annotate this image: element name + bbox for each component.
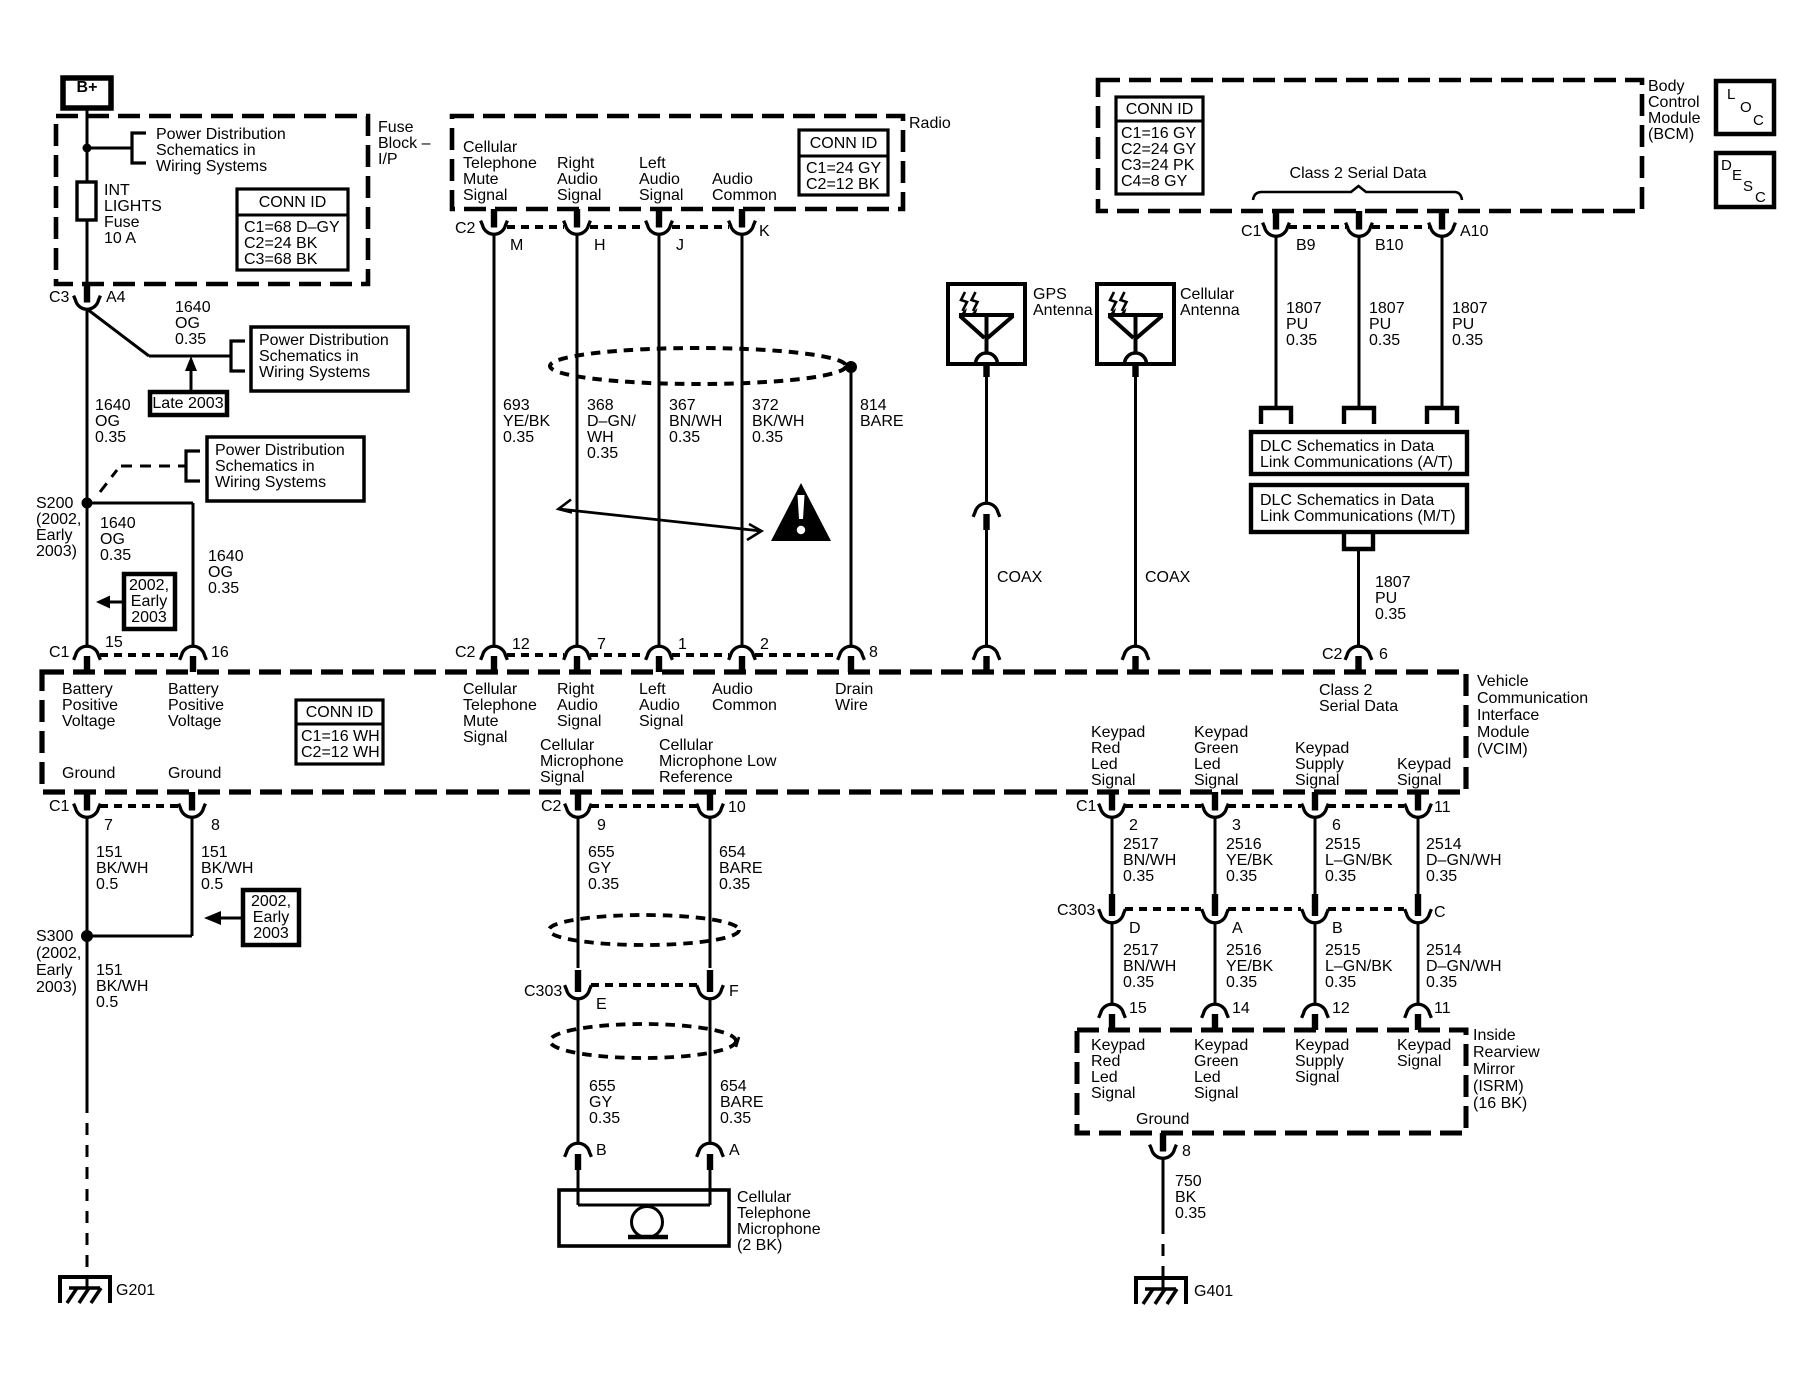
svg-text:Inside: Inside [1473, 1027, 1516, 1044]
svg-text:YE/BK: YE/BK [1226, 958, 1273, 975]
wire S200 down [86, 503, 89, 646]
wire S200 branch right [87, 503, 193, 646]
svg-text:A4: A4 [106, 289, 126, 306]
svg-text:Cellular: Cellular [540, 737, 595, 754]
svg-text:(2 BK): (2 BK) [737, 1237, 782, 1254]
svg-text:0.35: 0.35 [1226, 868, 1257, 885]
wire label 1807 PU 0.35 d [1375, 574, 1411, 623]
svg-text:0.35: 0.35 [1426, 974, 1457, 991]
label pin 1 [678, 636, 687, 653]
label COAX gps [997, 569, 1043, 586]
svg-text:Ground: Ground [62, 765, 115, 782]
wire label 367 BN/WH 0.35 [669, 397, 722, 446]
label Class 2 Serial Data (BCM) [1290, 165, 1427, 182]
svg-text:Mute: Mute [463, 713, 499, 730]
svg-text:C1: C1 [49, 644, 70, 661]
coax wire GPS lower [985, 530, 988, 646]
drain wire junction node [845, 361, 857, 373]
label Cellular Telephone Microphone (2 BK) [737, 1189, 821, 1254]
CONN ID table BCM [1116, 97, 1203, 194]
connector VCIM C1 pin 6 [1302, 792, 1329, 817]
svg-text:BK/WH: BK/WH [752, 413, 804, 430]
svg-text:0.35: 0.35 [720, 1110, 751, 1127]
svg-text:Common: Common [712, 187, 777, 204]
svg-text:OG: OG [100, 531, 125, 548]
wire label 1640 OG 0.35 right [208, 548, 244, 597]
svg-text:Telephone: Telephone [463, 155, 537, 172]
LOC box [1716, 81, 1774, 134]
wire label 750 BK 0.35 [1175, 1173, 1206, 1222]
svg-text:Voltage: Voltage [168, 713, 221, 730]
dashed connector row BCM [1289, 225, 1429, 229]
cellular telephone microphone box [559, 1190, 729, 1246]
label pin 9 [597, 817, 606, 834]
svg-text:PU: PU [1375, 590, 1397, 607]
svg-text:2003): 2003) [36, 543, 77, 560]
label G201 [116, 1282, 155, 1299]
svg-text:A: A [1232, 920, 1243, 937]
svg-text:Battery: Battery [62, 681, 113, 698]
svg-text:C1: C1 [1076, 798, 1097, 815]
label C303 mic [524, 983, 562, 1000]
svg-text:15: 15 [105, 634, 123, 651]
svg-text:Telephone: Telephone [737, 1205, 811, 1222]
svg-text:F: F [729, 983, 739, 1000]
svg-text:(BCM): (BCM) [1648, 126, 1694, 143]
svg-text:1640: 1640 [100, 515, 136, 532]
wire 2514 upper [1417, 817, 1420, 894]
svg-text:1640: 1640 [175, 299, 211, 316]
svg-text:Module: Module [1648, 110, 1701, 127]
label pin C keypad [1434, 904, 1446, 921]
svg-text:D: D [1129, 920, 1141, 937]
label Body Control Module (BCM) [1648, 78, 1701, 143]
svg-text:GY: GY [588, 860, 611, 877]
svg-text:D–GN/WH: D–GN/WH [1426, 852, 1502, 869]
label Power Distribution Schematics in Wiring Systems 1 [156, 126, 286, 175]
svg-text:2517: 2517 [1123, 836, 1159, 853]
label C3 [49, 289, 70, 306]
label pin 15 [105, 634, 123, 651]
svg-text:2003): 2003) [36, 979, 77, 996]
svg-text:Positive: Positive [168, 697, 224, 714]
svg-text:0.35: 0.35 [587, 445, 618, 462]
svg-text:0.35: 0.35 [175, 331, 206, 348]
wire label 693 YE/BK 0.35 [503, 397, 550, 446]
coax wire cellular [1134, 377, 1137, 646]
label Inside Rearview Mirror (ISRM) (16 BK) [1473, 1027, 1540, 1112]
svg-text:7: 7 [104, 817, 113, 834]
label GPS Antenna [1033, 286, 1093, 319]
svg-text:2517: 2517 [1123, 942, 1159, 959]
svg-text:A10: A10 [1460, 223, 1489, 240]
connector BCM B9 [1346, 211, 1373, 236]
svg-text:M: M [510, 237, 523, 254]
svg-text:Link Communications (M/T): Link Communications (M/T) [1260, 508, 1456, 525]
connector radio C2 pin M [481, 209, 508, 234]
connector C1 pin 15 entry [74, 646, 101, 672]
svg-text:BK/WH: BK/WH [96, 860, 148, 877]
label S300 (2002, Early 2003) [36, 928, 81, 996]
svg-text:11: 11 [1434, 799, 1451, 816]
svg-text:Led: Led [1194, 756, 1221, 773]
svg-text:1807: 1807 [1286, 300, 1322, 317]
wire label 654 BARE 0.35 lower [720, 1078, 764, 1127]
wire label 368 D-GN/WH 0.35 [587, 397, 636, 462]
svg-text:B10: B10 [1375, 237, 1404, 254]
label pin 16 [211, 644, 229, 661]
connector VCIM cellular coax entry [1122, 646, 1149, 672]
svg-text:0.35: 0.35 [588, 876, 619, 893]
svg-text:C2=12 BK: C2=12 BK [806, 176, 880, 193]
svg-text:Right: Right [557, 155, 595, 172]
dashed connector row C303 keypad [1125, 907, 1404, 911]
svg-text:C2=24 BK: C2=24 BK [244, 235, 318, 252]
connector BCM C1 serial [1263, 211, 1290, 236]
svg-text:Signal: Signal [1397, 1053, 1441, 1070]
connector ISRM pin 12 [1302, 1004, 1329, 1030]
svg-text:Keypad: Keypad [1397, 1037, 1451, 1054]
svg-text:Signal: Signal [639, 713, 683, 730]
connector VCIM C2 pin 8 drain [838, 646, 865, 672]
wire label 655 GY 0.35 lower [589, 1078, 620, 1127]
svg-text:0.35: 0.35 [208, 580, 239, 597]
svg-text:O: O [1740, 99, 1752, 116]
svg-text:L–GN/BK: L–GN/BK [1325, 852, 1393, 869]
svg-text:1640: 1640 [95, 397, 131, 414]
coax wire GPS upper [985, 377, 988, 504]
svg-text:Wire: Wire [835, 697, 868, 714]
svg-text:BN/WH: BN/WH [669, 413, 722, 430]
connector C303 pin F [697, 970, 724, 999]
label A4 [106, 289, 126, 306]
wire 1807 PU from B10 [1441, 236, 1444, 408]
svg-text:C1=16 GY: C1=16 GY [1121, 125, 1196, 142]
svg-text:OG: OG [175, 315, 200, 332]
svg-text:Fuse: Fuse [104, 214, 140, 231]
wire 1807 PU to VCIM [1357, 549, 1360, 646]
connector VCIM C2 pin 10 [697, 792, 724, 817]
svg-text:B+: B+ [77, 79, 98, 96]
svg-text:Microphone Low: Microphone Low [659, 753, 777, 770]
wire junction to bracket [87, 147, 132, 150]
svg-text:1640: 1640 [208, 548, 244, 565]
label pin M [510, 237, 523, 254]
splice S300 [81, 930, 93, 942]
svg-text:Common: Common [712, 697, 777, 714]
svg-text:Keypad: Keypad [1194, 1037, 1248, 1054]
dashed connector row mic [591, 804, 697, 808]
svg-text:0.5: 0.5 [96, 994, 118, 1011]
svg-text:Early: Early [131, 593, 167, 610]
label pin 15 ISRM [1129, 1000, 1147, 1017]
svg-text:Supply: Supply [1295, 1053, 1344, 1070]
svg-text:Signal: Signal [1091, 1085, 1135, 1102]
svg-text:Left: Left [639, 155, 666, 172]
svg-text:INT: INT [104, 182, 130, 199]
svg-text:693: 693 [503, 397, 530, 414]
svg-text:Audio: Audio [557, 697, 598, 714]
label Fuse Block - I/P [378, 119, 431, 168]
label pin 10 [728, 799, 746, 816]
B+ battery positive terminal [63, 78, 111, 108]
wire S300 to ground solid [86, 936, 89, 1101]
caution pointer line [559, 500, 762, 541]
wire label 1807 PU 0.35 a [1286, 300, 1322, 349]
wire 750 BK dashed [1162, 1222, 1165, 1278]
svg-text:C2: C2 [541, 798, 562, 815]
svg-text:DLC Schematics in Data: DLC Schematics in Data [1260, 492, 1434, 509]
svg-text:Keypad: Keypad [1091, 1037, 1145, 1054]
label Keypad Supply Signal (ISRM) [1295, 1037, 1349, 1086]
svg-text:Rearview: Rearview [1473, 1044, 1540, 1061]
svg-text:2515: 2515 [1325, 942, 1361, 959]
svg-text:(VCIM): (VCIM) [1477, 741, 1528, 758]
label pin J [676, 237, 684, 254]
label Keypad Red Led Signal (ISRM) [1091, 1037, 1145, 1102]
connector C303 pin E [565, 970, 592, 999]
label Right Audio Signal (radio) [557, 155, 601, 204]
svg-text:0.35: 0.35 [1325, 974, 1356, 991]
label INT LIGHTS Fuse 10 A [104, 182, 162, 247]
ground G401 [1136, 1278, 1186, 1304]
wire label 2515 L-GN/BK upper [1325, 836, 1393, 885]
shield ellipse radio harness [550, 348, 846, 384]
svg-text:H: H [594, 237, 606, 254]
wire label 1807 PU 0.35 b [1369, 300, 1405, 349]
dashed connector row C1 left [100, 653, 180, 657]
label C2 radio [455, 220, 476, 237]
svg-text:Wiring Systems: Wiring Systems [156, 158, 267, 175]
svg-text:Early: Early [36, 962, 72, 979]
connector mic pin B [565, 1143, 592, 1170]
svg-text:Red: Red [1091, 740, 1120, 757]
label B9 [1296, 237, 1316, 254]
label C2 mic [541, 798, 562, 815]
svg-text:2003: 2003 [131, 609, 167, 626]
svg-text:J: J [676, 237, 684, 254]
label Keypad Red Led Signal (VCIM) [1091, 724, 1145, 789]
svg-text:Signal: Signal [1295, 772, 1339, 789]
svg-text:Communication: Communication [1477, 690, 1588, 707]
connector radio C2 pin K [729, 209, 756, 234]
svg-text:Signal: Signal [1295, 1069, 1339, 1086]
svg-text:2514: 2514 [1426, 942, 1462, 959]
label C1 BCM [1241, 223, 1262, 240]
wire C3 down to S200 [86, 309, 89, 503]
label Right Audio Signal (VCIM) [557, 681, 601, 730]
connector C3 pin A4 [74, 284, 101, 309]
svg-text:BK/WH: BK/WH [201, 860, 253, 877]
connector C1 pin 16 entry [180, 646, 207, 672]
wire 2515 upper [1314, 817, 1317, 894]
svg-text:S200: S200 [36, 495, 73, 512]
svg-text:367: 367 [669, 397, 696, 414]
wire label 1640 OG 0.35 branch [175, 299, 211, 348]
svg-text:655: 655 [588, 844, 615, 861]
connector VCIM C1 pin 8 ground [179, 792, 206, 817]
connector C303 pin C keypad [1405, 894, 1432, 923]
svg-text:Signal: Signal [557, 187, 601, 204]
wire 750 BK solid [1162, 1158, 1165, 1222]
CONN ID table fuse block [237, 189, 348, 270]
svg-text:Audio: Audio [639, 171, 680, 188]
svg-text:Mute: Mute [463, 171, 499, 188]
svg-text:CONN ID: CONN ID [306, 704, 374, 721]
label C303 keypad [1057, 902, 1095, 919]
dashed connector row keypad C1 [1125, 804, 1404, 808]
svg-text:Keypad: Keypad [1194, 724, 1248, 741]
svg-text:Schematics in: Schematics in [215, 458, 315, 475]
wire 151 BK/WH pin8 [87, 817, 192, 936]
svg-text:Left: Left [639, 681, 666, 698]
svg-text:Audio: Audio [712, 681, 753, 698]
wire into mic left [577, 1170, 580, 1205]
svg-text:C3=68 BK: C3=68 BK [244, 251, 318, 268]
svg-text:Cellular: Cellular [737, 1189, 792, 1206]
label A10 [1460, 223, 1489, 240]
svg-text:Cellular: Cellular [659, 737, 714, 754]
connector VCIM C1 pin 11 [1405, 792, 1432, 817]
svg-text:S: S [1743, 178, 1753, 195]
connector VCIM C2 pin 1 [646, 646, 673, 672]
svg-text:12: 12 [512, 636, 530, 653]
label C2 VCIM audio [455, 644, 476, 661]
svg-text:C4=8 GY: C4=8 GY [1121, 173, 1188, 190]
svg-text:Module: Module [1477, 724, 1530, 741]
svg-text:C303: C303 [1057, 902, 1095, 919]
svg-text:C1=24 GY: C1=24 GY [806, 160, 881, 177]
label pin 11 top [1434, 799, 1451, 816]
svg-text:3: 3 [1232, 817, 1241, 834]
connector ISRM pin 8 ground [1150, 1133, 1177, 1158]
svg-text:Fuse: Fuse [378, 119, 414, 136]
svg-text:0.5: 0.5 [201, 876, 223, 893]
svg-text:I/P: I/P [378, 151, 398, 168]
svg-text:0.35: 0.35 [1426, 868, 1457, 885]
svg-text:OG: OG [95, 413, 120, 430]
label B10 [1375, 237, 1404, 254]
svg-text:372: 372 [752, 397, 779, 414]
wire label 2517 BN/WH upper [1123, 836, 1176, 885]
svg-text:151: 151 [96, 962, 123, 979]
svg-text:Control: Control [1648, 94, 1700, 111]
wire 2515 lower [1314, 922, 1317, 1003]
svg-text:Signal: Signal [1091, 772, 1135, 789]
wire fuse to connector C3 [86, 220, 89, 284]
svg-text:C2: C2 [1322, 646, 1343, 663]
connector VCIM C2 pin 2 [729, 646, 756, 672]
wire branch diagonal late-2003 [87, 309, 231, 356]
svg-text:0.35: 0.35 [1452, 332, 1483, 349]
wire label 151 BK/WH 0.5 c [96, 962, 148, 1011]
svg-text:8: 8 [211, 817, 220, 834]
twisted pair ellipse lower [550, 1024, 739, 1058]
svg-text:YE/BK: YE/BK [503, 413, 550, 430]
svg-text:B9: B9 [1296, 237, 1316, 254]
connector C303 pin A keypad [1202, 894, 1229, 923]
connector C303 pin D [1099, 894, 1126, 923]
svg-text:Wiring Systems: Wiring Systems [259, 364, 370, 381]
label pin 8 [869, 644, 878, 661]
svg-text:10 A: 10 A [104, 230, 136, 247]
svg-text:C303: C303 [524, 983, 562, 1000]
connector VCIM gps coax entry [973, 646, 1000, 672]
wire 151 BK/WH pin7 [86, 817, 89, 936]
label G401 [1194, 1283, 1233, 1300]
svg-text:7: 7 [597, 636, 606, 653]
label Radio [909, 115, 951, 132]
svg-text:11: 11 [1434, 1000, 1451, 1017]
label Audio Common (VCIM) [712, 681, 777, 714]
svg-text:Signal: Signal [1194, 772, 1238, 789]
svg-text:Led: Led [1091, 756, 1118, 773]
label Battery Positive Voltage 1 [62, 681, 118, 730]
svg-text:C2: C2 [455, 220, 476, 237]
label pin 2 [1129, 817, 1138, 834]
label Keypad Signal (ISRM) [1397, 1037, 1451, 1070]
wire S300 to ground dashed [86, 1101, 89, 1277]
junction node in fuse block [83, 144, 92, 153]
wire 2516 upper [1214, 817, 1217, 894]
label pin 8 ISRM [1182, 1143, 1191, 1160]
svg-text:C1: C1 [49, 798, 70, 815]
svg-text:PU: PU [1452, 316, 1474, 333]
brace Class 2 Serial Data [1253, 186, 1462, 200]
wire 1807 PU from B9 [1358, 236, 1361, 408]
svg-text:Schematics in: Schematics in [156, 142, 256, 159]
svg-text:C1: C1 [1241, 223, 1262, 240]
svg-text:Led: Led [1194, 1069, 1221, 1086]
wire label 372 BK/WH 0.35 [752, 397, 804, 446]
label pin 3 [1232, 817, 1241, 834]
svg-text:Wiring Systems: Wiring Systems [215, 474, 326, 491]
svg-text:Telephone: Telephone [463, 697, 537, 714]
svg-text:2: 2 [1129, 817, 1138, 834]
svg-text:D: D [1721, 157, 1732, 174]
svg-text:2003: 2003 [253, 925, 289, 942]
svg-text:Signal: Signal [463, 729, 507, 746]
label Audio Common (radio) [712, 171, 777, 204]
svg-text:Radio: Radio [909, 115, 951, 132]
connector VCIM C1 pin 2 [1099, 792, 1126, 817]
dashed connector row C303 mic [591, 983, 697, 987]
label pin 12 ISRM [1332, 1000, 1350, 1017]
svg-text:B: B [1332, 920, 1343, 937]
svg-text:Power Distribution: Power Distribution [156, 126, 286, 143]
Fuse Block I/P dashed box [56, 116, 368, 284]
svg-text:0.35: 0.35 [1325, 868, 1356, 885]
svg-text:814: 814 [860, 397, 887, 414]
svg-text:Keypad: Keypad [1295, 1037, 1349, 1054]
svg-text:Cellular: Cellular [1180, 286, 1235, 303]
wire label 655 GY 0.35 upper [588, 844, 619, 893]
wire 367 left audio [658, 234, 661, 646]
label pin B [596, 1142, 607, 1159]
label Drain Wire (VCIM) [835, 681, 873, 714]
svg-text:2514: 2514 [1426, 836, 1462, 853]
svg-text:0.35: 0.35 [503, 429, 534, 446]
wire into mic right [709, 1170, 712, 1205]
svg-text:Antenna: Antenna [1033, 302, 1093, 319]
label Ground 1 [62, 765, 115, 782]
splice S200 [82, 498, 93, 509]
label Ground ISRM [1136, 1111, 1189, 1128]
svg-text:0.35: 0.35 [752, 429, 783, 446]
svg-text:Signal: Signal [463, 187, 507, 204]
connector VCIM C1 pin 3 [1202, 792, 1229, 817]
svg-text:C: C [1755, 189, 1766, 206]
